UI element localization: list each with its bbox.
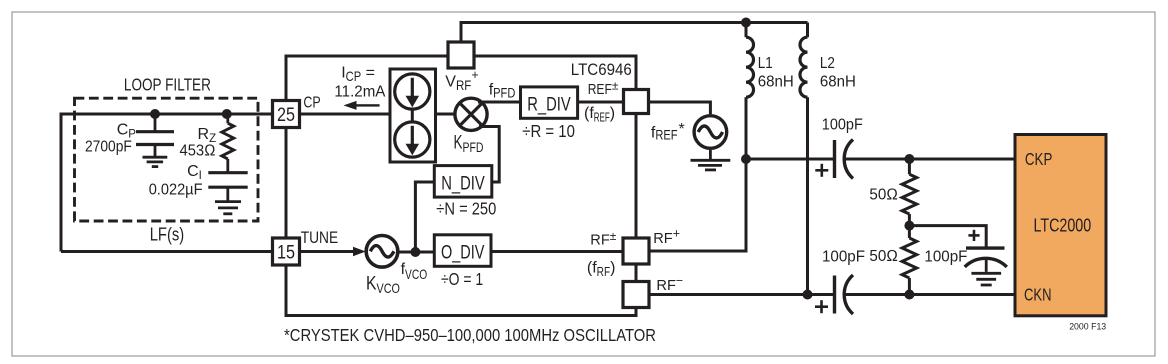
capacitor 100pF bottom curved plate xyxy=(844,275,853,314)
node junction L2/CKN xyxy=(803,290,813,300)
wire mixer to N_DIV loop xyxy=(479,127,499,183)
resistor 50ohm upper xyxy=(902,159,917,226)
svg-text:*CRYSTEK CVHD–950–100,000 100M: *CRYSTEK CVHD–950–100,000 100MHz OSCILLA… xyxy=(284,325,656,345)
svg-text:CP: CP xyxy=(303,94,320,111)
node junction 50ohm top xyxy=(904,154,914,164)
svg-text:÷N = 250: ÷N = 250 xyxy=(436,199,496,219)
pin square RF- xyxy=(623,282,649,308)
svg-text:2700pF: 2700pF xyxy=(85,138,132,155)
wire KVCO to O_DIV xyxy=(399,251,435,254)
wire RF- to CKN line xyxy=(649,293,833,296)
arrow charge pump top xyxy=(406,78,420,108)
svg-text:453Ω: 453Ω xyxy=(180,143,216,160)
arrow charge pump bottom xyxy=(406,126,420,156)
svg-text:LOOP FILTER: LOOP FILTER xyxy=(124,75,211,95)
svg-text:LF(s): LF(s) xyxy=(150,223,185,244)
charge pump current source bottom xyxy=(395,122,430,157)
LTC2000 block xyxy=(1015,135,1106,316)
svg-text:50Ω: 50Ω xyxy=(869,187,898,204)
wire TUNE line xyxy=(61,250,273,253)
ground under CP xyxy=(143,157,168,166)
wire CP line from loop filter to pin 25 xyxy=(61,113,273,116)
capacitor CP xyxy=(136,114,174,157)
N_DIV box xyxy=(434,166,492,198)
plus sign 100pF bottom cap xyxy=(815,300,828,313)
capacitor 100pF top curved plate xyxy=(844,140,853,179)
wire TUNE arrow line xyxy=(300,250,357,253)
plus sign 100pF top cap xyxy=(815,164,828,177)
wire R_DIV to REF pin xyxy=(578,101,624,104)
node junction mid xyxy=(904,221,914,231)
capacitor 100pF top plate flat xyxy=(833,140,836,178)
node junction at Cp xyxy=(150,109,160,119)
svg-text:50Ω: 50Ω xyxy=(869,248,898,265)
pin square VRF+ xyxy=(448,42,474,68)
VCO KVCO circle xyxy=(366,236,398,268)
ground under shunt cap xyxy=(971,259,1001,285)
svg-text:fPFD: fPFD xyxy=(489,81,516,100)
capacitor 100pF shunt curved plate xyxy=(965,258,1007,267)
svg-text:ICP =: ICP = xyxy=(341,65,375,84)
svg-text:68nH: 68nH xyxy=(758,74,794,91)
svg-text:L1: L1 xyxy=(758,55,773,72)
svg-text:100pF: 100pF xyxy=(924,249,967,266)
wire cap to CKN pin xyxy=(846,293,1016,296)
wire left vertical xyxy=(60,113,63,252)
node junction 50ohm bottom xyxy=(904,290,914,300)
ground under CI xyxy=(215,202,241,214)
svg-text:LTC6946: LTC6946 xyxy=(571,60,632,79)
capacitor 100pF bottom plate flat xyxy=(833,276,836,314)
node junction at Rz xyxy=(222,109,232,119)
svg-text:68nH: 68nH xyxy=(820,74,856,91)
resistor 50ohm lower xyxy=(902,226,917,295)
wire charge pump to mixer xyxy=(436,113,456,116)
pin square RF+ xyxy=(623,238,649,264)
oscillator fREF circle xyxy=(694,116,727,149)
svg-text:R_DIV: R_DIV xyxy=(527,93,571,115)
wire O_DIV to RF+ pin xyxy=(491,250,623,253)
svg-text:CKN: CKN xyxy=(1024,285,1052,305)
wire top rail VRF+ xyxy=(461,23,808,43)
pin square REF xyxy=(624,90,649,114)
charge pump current source top xyxy=(395,74,430,109)
R_DIV box xyxy=(521,87,578,118)
capacitor CI xyxy=(208,173,247,202)
wire RF+ to L1 branch xyxy=(649,159,746,251)
svg-text:100pF: 100pF xyxy=(822,117,863,134)
wire CKP line to cap xyxy=(746,158,833,161)
plus sign shunt cap xyxy=(968,230,979,241)
wire fPFD mixer to R_DIV xyxy=(478,101,521,104)
pin square 25 CP xyxy=(273,101,300,128)
loop filter dashed box xyxy=(75,98,259,221)
svg-text:O_DIV: O_DIV xyxy=(441,241,485,263)
svg-text:LTC2000: LTC2000 xyxy=(1034,216,1092,236)
svg-text:2000 F13: 2000 F13 xyxy=(1069,322,1106,333)
svg-text:25: 25 xyxy=(277,105,295,126)
svg-text:11.2mA: 11.2mA xyxy=(334,83,385,100)
svg-text:÷O = 1: ÷O = 1 xyxy=(441,269,483,289)
stem between current sources xyxy=(411,109,414,122)
wire mid node to shunt cap xyxy=(909,226,986,247)
pin square 15 TUNE xyxy=(273,238,300,265)
capacitor 100pF shunt flat plate xyxy=(966,246,1005,249)
O_DIV box xyxy=(434,235,491,266)
svg-text:15: 15 xyxy=(277,242,295,263)
node junction fVCO xyxy=(410,247,420,257)
svg-text:CKP: CKP xyxy=(1025,149,1053,169)
svg-text:0.022µF: 0.022µF xyxy=(149,182,203,199)
arrow ICP direction xyxy=(344,101,380,110)
inductor L1 xyxy=(746,23,754,160)
LTC6946 block outline xyxy=(286,56,636,316)
svg-text:L2: L2 xyxy=(820,55,835,72)
charge pump box xyxy=(390,69,436,162)
svg-text:N_DIV: N_DIV xyxy=(441,173,485,195)
resistor RZ xyxy=(222,114,234,173)
svg-text:100pF: 100pF xyxy=(822,249,865,266)
wire pin25 to charge pump xyxy=(300,113,391,116)
wire REF pin to oscillator xyxy=(649,102,711,114)
svg-text:÷R = 10: ÷R = 10 xyxy=(522,121,575,141)
node junction CKP/L1 xyxy=(741,154,751,164)
node junction top rail L1 xyxy=(741,18,751,28)
phase detector KPFD mixer xyxy=(455,98,487,130)
svg-text:TUNE: TUNE xyxy=(301,228,339,247)
wire cap to CKP pin xyxy=(846,158,1016,161)
ground under oscillator xyxy=(691,150,731,170)
arrow TUNE into VCO xyxy=(353,247,366,256)
wire N_DIV to fVCO node xyxy=(415,182,434,252)
inductor L2 xyxy=(800,23,807,295)
